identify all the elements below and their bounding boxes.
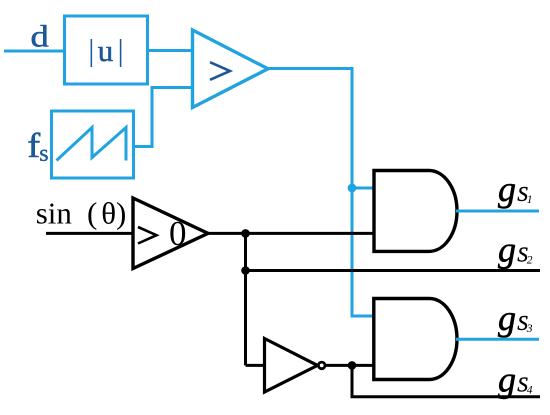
comparator U2 (polarity > 0) — [133, 198, 208, 269]
wire d input — [4, 50, 65, 53]
AND gate U4 (gS1) — [374, 171, 457, 252]
svg-text:|: | — [88, 33, 94, 68]
svg-text:g: g — [498, 360, 516, 400]
svg-text:2: 2 — [527, 254, 533, 266]
wire inverter output to AND2 — [326, 364, 374, 367]
svg-text:u: u — [98, 33, 114, 68]
svg-text:θ: θ — [101, 195, 116, 230]
svg-text:3: 3 — [526, 323, 533, 335]
wire gS4 line — [352, 365, 540, 396]
wire fs to comparator — [134, 88, 193, 147]
inverter U3 triangle — [265, 339, 318, 393]
comparator U1 (PWM) — [193, 30, 269, 108]
svg-text:g: g — [498, 169, 516, 209]
svg-text:4: 4 — [527, 385, 533, 397]
junction black A — [241, 229, 250, 238]
svg-text:): ) — [116, 196, 126, 231]
comparator U1 > symbol — [210, 62, 230, 80]
svg-text:g: g — [498, 230, 516, 270]
wire gS2 line — [246, 269, 541, 272]
svg-text:s: s — [39, 141, 48, 167]
junction black C — [348, 361, 357, 370]
junction black B — [241, 266, 250, 275]
svg-text:|: | — [118, 33, 124, 68]
wire vertical trunk black — [244, 233, 247, 365]
block |u| absolute-value — [65, 16, 148, 84]
wire comparator output trunk — [268, 69, 374, 317]
svg-text:0: 0 — [169, 214, 187, 253]
svg-text:g: g — [498, 298, 516, 338]
inverter U3 bubble — [318, 362, 325, 369]
junction blue — [348, 184, 357, 193]
svg-text:1: 1 — [527, 194, 533, 206]
wire |u| to comparator — [148, 49, 193, 52]
wire U2 output to AND1 — [208, 232, 374, 235]
svg-text:(: ( — [87, 196, 97, 231]
svg-text:sin: sin — [36, 195, 73, 230]
comparator U2 > symbol — [138, 227, 157, 244]
svg-text:d: d — [31, 18, 50, 53]
wire AND2 output gS3 — [456, 338, 539, 341]
block sawtooth carrier fs — [52, 111, 134, 178]
AND gate U5 (gS3) — [374, 299, 457, 380]
wire sin input — [46, 232, 133, 235]
wire to inverter input — [246, 364, 265, 367]
sawtooth waveform — [57, 128, 127, 161]
wire to AND1 input — [352, 187, 374, 190]
wire AND1 output gS1 — [456, 210, 539, 213]
